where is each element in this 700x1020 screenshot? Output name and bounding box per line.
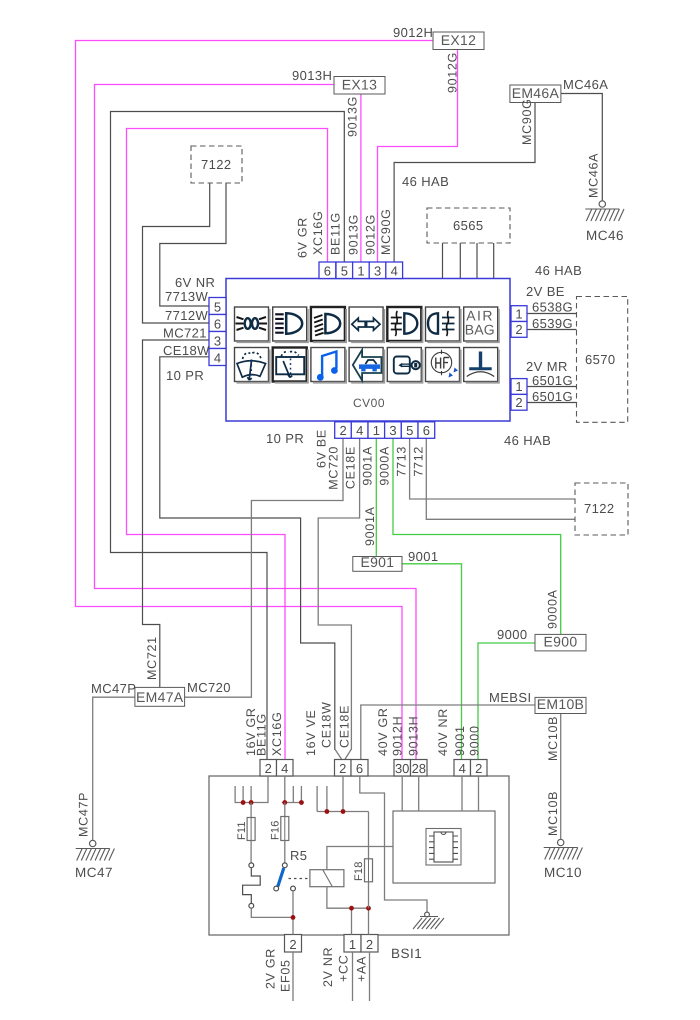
- svg-text:46 HAB: 46 HAB: [504, 433, 551, 448]
- component 7122 (bottom dashed box): [575, 483, 628, 535]
- svg-text:7712W: 7712W: [165, 308, 209, 323]
- svg-text:EX13: EX13: [342, 77, 377, 93]
- svg-text:9012G: 9012G: [364, 214, 378, 255]
- svg-text:4: 4: [214, 350, 221, 365]
- wire 7713W (7122 to CV00 left pin 5): [160, 183, 226, 306]
- svg-text:9000: 9000: [497, 627, 528, 642]
- ground MC47: [75, 840, 114, 880]
- svg-text:28: 28: [412, 761, 426, 776]
- BSI top pins 30,28 (40V GR): [394, 760, 411, 777]
- svg-text:7122: 7122: [584, 501, 615, 516]
- BSI internal IC box: [393, 811, 495, 883]
- svg-text:EM10B: EM10B: [537, 696, 584, 712]
- wire BE11G (CV00 top pin 5 to BSI pin 2): [111, 112, 345, 761]
- svg-text:9013G: 9013G: [346, 96, 360, 137]
- BSI top pins 2,6 (16V VE): [335, 760, 352, 777]
- svg-text:E900: E900: [544, 633, 578, 649]
- wire CE18E (CV00 bottom pin 4 to BSI pin 2 splice): [318, 439, 359, 751]
- svg-text:40V NR: 40V NR: [436, 708, 450, 756]
- svg-text:MC10B: MC10B: [546, 791, 560, 836]
- manual switch below F11: [250, 841, 252, 863]
- svg-text:9000: 9000: [468, 725, 482, 756]
- svg-text:2V MR: 2V MR: [526, 359, 568, 374]
- svg-text:5: 5: [214, 299, 221, 314]
- svg-text:16V VE: 16V VE: [304, 709, 318, 756]
- svg-text:2V BE: 2V BE: [526, 284, 565, 299]
- BSI internal bus 1 (from pin 2 BE11G): [235, 776, 268, 803]
- wire 9012G (magenta: EX12 to CV00 top pin 3): [378, 50, 458, 263]
- svg-text:4: 4: [281, 761, 288, 776]
- connector EM10B: [535, 697, 586, 713]
- icon: low beam headlight (tile r1c3): [311, 307, 346, 342]
- wire 6538G (CV00 right pin 1 to 6570): [527, 313, 577, 315]
- svg-text:2: 2: [289, 937, 296, 952]
- svg-text:6V GR: 6V GR: [296, 217, 310, 258]
- svg-text:MC10B: MC10B: [546, 716, 560, 761]
- wire MC90G (CV00 top pin 4 to EM46A): [394, 103, 535, 263]
- svg-text:6: 6: [214, 316, 221, 331]
- wire MEBSI (BSI pin 6 to EM10B): [361, 705, 535, 760]
- icon: rear fog light (tile r1c6): [426, 307, 461, 342]
- BSI top pins 2,4 (16V GR): [260, 760, 277, 777]
- svg-text:2: 2: [265, 761, 272, 776]
- svg-text:MC46A: MC46A: [587, 153, 601, 198]
- BSI internal bus 2 (from pin 4 XC16G): [282, 776, 304, 803]
- svg-text:9013H: 9013H: [292, 68, 332, 83]
- svg-text:MC90G: MC90G: [520, 98, 534, 145]
- fuse F18: [368, 812, 370, 859]
- svg-text:3: 3: [389, 423, 396, 438]
- wires 6565 to CV00: [443, 243, 494, 279]
- BSI bottom pins 1,2 (+CC,+AA): [344, 935, 361, 953]
- relay R5 contact: [284, 841, 286, 863]
- wire coil to IC: [327, 847, 393, 870]
- BSI top pins 4,2 (40V NR): [454, 760, 471, 777]
- wire 9012H (magenta: EX12 to BSI pin 30): [76, 41, 434, 761]
- svg-text:9013G: 9013G: [347, 214, 361, 255]
- component 6565 (dashed box): [427, 208, 510, 243]
- svg-text:10 PR: 10 PR: [166, 368, 204, 383]
- svg-text:9000A: 9000A: [378, 446, 392, 486]
- svg-text:MC47P: MC47P: [77, 792, 91, 837]
- svg-text:6501G: 6501G: [532, 389, 573, 404]
- svg-text:MC47: MC47: [75, 865, 113, 880]
- svg-text:BAG: BAG: [465, 322, 495, 338]
- wire 7712 (CV00 bottom pin 6 to 7122 bottom box): [426, 439, 575, 520]
- svg-text:9000A: 9000A: [546, 589, 560, 629]
- svg-text:2V GR: 2V GR: [264, 948, 278, 989]
- svg-text:MEBSI: MEBSI: [489, 690, 531, 705]
- CV00 right connector pins 1,2 (upper): [511, 306, 527, 322]
- svg-text:CE18W: CE18W: [163, 343, 210, 358]
- svg-text:2V NR: 2V NR: [321, 947, 335, 987]
- svg-text:2: 2: [339, 761, 346, 776]
- svg-text:7122: 7122: [201, 157, 232, 172]
- icon: AIR BAG (tile r1c7): [464, 307, 499, 342]
- wire coil to bottom pins 1,2: [327, 887, 369, 935]
- wire 9001 (E901 to BSI pin 4): [402, 564, 462, 760]
- BSI1 main box: [209, 776, 509, 935]
- icon: turn signals (tile r1c4): [349, 307, 384, 342]
- connector EM46A: [510, 85, 561, 103]
- svg-text:9012H: 9012H: [393, 25, 433, 40]
- wire 9013G (magenta: EX13 to CV00 top pin 1): [360, 94, 362, 263]
- svg-text:6V NR: 6V NR: [175, 275, 215, 290]
- icon: front fog light (tile r1c5): [387, 307, 422, 342]
- svg-text:6539G: 6539G: [532, 316, 573, 331]
- connector EM47A: [135, 687, 185, 706]
- svg-text:5: 5: [406, 423, 413, 438]
- svg-text:+CC: +CC: [337, 955, 351, 982]
- wire CE18W (CV00 left pin 4 to BSI pin 2 splice): [160, 357, 335, 750]
- svg-text:BE11G: BE11G: [255, 713, 269, 756]
- icon: rear window wiper (tile r2c2): [273, 348, 308, 383]
- wire 6501G (CV00 right pin 1 lower to 6570): [527, 386, 577, 388]
- svg-text:CE18W: CE18W: [320, 701, 334, 748]
- component 7122 (top dashed box): [191, 146, 242, 183]
- svg-text:30: 30: [395, 761, 409, 776]
- svg-text:CE18E: CE18E: [338, 705, 352, 748]
- svg-text:6565: 6565: [453, 218, 484, 233]
- svg-text:9001A: 9001A: [361, 446, 375, 486]
- svg-text:CE18E: CE18E: [344, 446, 358, 489]
- svg-text:MC720: MC720: [327, 446, 341, 490]
- svg-text:R5: R5: [290, 848, 307, 863]
- svg-text:EX12: EX12: [441, 32, 476, 48]
- svg-text:XC16G: XC16G: [270, 712, 284, 757]
- BSI internal bus 3 (from pin 2 VE): [317, 776, 368, 812]
- svg-text:BE11G: BE11G: [329, 212, 343, 255]
- svg-text:4: 4: [391, 263, 398, 278]
- CV00 bottom connector pins 2,4,1,3,5,6: [335, 422, 352, 439]
- svg-text:MC10: MC10: [544, 865, 582, 880]
- wire 9000A (CV00 bottom pin 3 to E900): [393, 439, 561, 635]
- svg-text:1: 1: [349, 937, 356, 952]
- icon: ignition key (tile r2c5): [387, 348, 422, 383]
- connector E900: [535, 634, 586, 651]
- svg-text:MC721: MC721: [163, 326, 207, 341]
- svg-text:MC90G: MC90G: [379, 208, 393, 255]
- fuse F11: [250, 803, 252, 818]
- junction dots bus 1: [241, 800, 246, 805]
- CV00 top connector pins 6,5,1,3,4: [319, 262, 336, 279]
- svg-text:F11: F11: [236, 821, 248, 840]
- splice V into BSI pin 2 (CE18W+CE18E): [335, 749, 352, 760]
- svg-text:6: 6: [356, 761, 363, 776]
- component 6570 (dashed box): [577, 297, 628, 423]
- svg-text:2: 2: [515, 322, 522, 337]
- svg-text:1: 1: [373, 423, 380, 438]
- svg-text:9012G: 9012G: [446, 52, 460, 93]
- ground MC10: [544, 839, 583, 880]
- svg-text:1: 1: [357, 263, 364, 278]
- wire XC16G (magenta: CV00 top pin 6 to BSI pin 4): [127, 129, 328, 761]
- svg-text:2: 2: [339, 423, 346, 438]
- svg-text:MC46A: MC46A: [563, 77, 608, 92]
- svg-text:9001A: 9001A: [363, 506, 377, 546]
- icon: windscreen wiper/washer (tile r2c1): [235, 348, 270, 383]
- connector E901: [353, 557, 402, 572]
- BSI bottom pin 2 (EF05): [285, 935, 302, 953]
- svg-text:CV00: CV00: [353, 396, 385, 410]
- svg-text:6570: 6570: [585, 352, 616, 367]
- svg-text:XC16G: XC16G: [311, 211, 325, 256]
- icon: HF remote control (tile r2c6): [426, 348, 461, 383]
- svg-text:3: 3: [374, 263, 381, 278]
- svg-text:9001: 9001: [408, 549, 439, 564]
- wire MC46A (EM46A to ground MC46): [560, 94, 602, 202]
- svg-text:BSI1: BSI1: [391, 946, 422, 961]
- svg-text:46 HAB: 46 HAB: [535, 263, 582, 278]
- BSI internal ground path: [360, 776, 427, 912]
- wire 7712W (7122 to CV00 left pin 6): [143, 183, 210, 323]
- svg-text:9013H: 9013H: [407, 716, 421, 756]
- fuse F16: [284, 803, 286, 817]
- wire 6539G (CV00 right pin 2 to 6570): [527, 329, 577, 331]
- wire MC47P (EM47A to ground MC47): [93, 697, 135, 840]
- ground MC46: [585, 201, 624, 243]
- wire 6501G (CV00 right pin 2 lower to 6570): [527, 402, 577, 404]
- connector EX13: [334, 77, 385, 95]
- svg-text:MC721: MC721: [145, 636, 159, 680]
- svg-text:6: 6: [423, 423, 430, 438]
- icon: car door / deadlocking arrow (tile r2c4): [349, 348, 384, 383]
- svg-text:EF05: EF05: [279, 959, 293, 992]
- svg-text:40V GR: 40V GR: [376, 707, 390, 756]
- svg-text:MC46: MC46: [586, 228, 624, 243]
- svg-text:4: 4: [459, 761, 466, 776]
- svg-text:9001: 9001: [453, 725, 467, 756]
- svg-text:2: 2: [475, 761, 482, 776]
- icon: high beam headlight (tile r1c2): [273, 307, 308, 342]
- svg-text:EM46A: EM46A: [512, 85, 560, 101]
- wire +CC (below BSI pin 1): [352, 952, 354, 1001]
- wire MC721 (CV00 left pin 3 to EM47A): [143, 340, 210, 687]
- icon: position lights (tile r1c1): [235, 307, 270, 342]
- wire 7713 (CV00 bottom pin 5 to 7122 bottom box): [410, 439, 575, 500]
- svg-text:10 PR: 10 PR: [266, 431, 304, 446]
- icon: antenna (tile r2c7): [464, 348, 499, 383]
- relay R5 coil: [289, 878, 310, 880]
- wire EF05 (below BSI pin 2): [292, 952, 294, 1001]
- svg-text:5: 5: [341, 263, 348, 278]
- svg-text:2: 2: [515, 395, 522, 410]
- svg-text:46 HAB: 46 HAB: [402, 174, 449, 189]
- svg-text:MC720: MC720: [187, 680, 231, 695]
- svg-text:2: 2: [366, 937, 373, 952]
- svg-text:+AA: +AA: [355, 956, 369, 982]
- svg-text:6: 6: [324, 263, 331, 278]
- svg-text:4: 4: [356, 423, 363, 438]
- connector EX12: [433, 32, 484, 50]
- wire 9000 (E900 to BSI pin 2): [478, 643, 535, 760]
- wire MC720 (CV00 bottom pin 2 to EM47A): [185, 439, 343, 698]
- svg-text:6501G: 6501G: [532, 373, 573, 388]
- svg-text:3: 3: [214, 333, 221, 348]
- wire +AA (below BSI pin 2): [369, 952, 371, 1001]
- svg-text:7713: 7713: [395, 446, 409, 477]
- ECU CV00 (main blue box): [226, 279, 510, 422]
- svg-text:7713W: 7713W: [165, 289, 209, 304]
- wire 9013H (magenta: EX13 to BSI pin 28): [95, 85, 417, 761]
- wires BSI top pins into IC: [402, 776, 478, 811]
- CV00 left connector pins 5,6,3,4: [209, 298, 226, 315]
- wire 9001A (CV00 bottom pin 1 to E901): [375, 439, 377, 558]
- svg-text:1: 1: [515, 306, 522, 321]
- svg-text:F18: F18: [353, 861, 365, 881]
- svg-text:7712: 7712: [412, 446, 426, 477]
- svg-text:MC47P: MC47P: [91, 681, 136, 696]
- svg-text:EM47A: EM47A: [136, 689, 184, 705]
- CV00 right connector pins 1,2 (lower): [511, 379, 527, 395]
- svg-text:9012H: 9012H: [391, 716, 405, 756]
- svg-text:6538G: 6538G: [532, 300, 573, 315]
- svg-text:1: 1: [515, 379, 522, 394]
- icon: audio signal / music notes (tile r2c3): [311, 348, 346, 383]
- wire MC10B (EM10B to ground MC10): [560, 714, 562, 840]
- svg-text:E901: E901: [360, 554, 394, 570]
- svg-text:F16: F16: [270, 820, 282, 840]
